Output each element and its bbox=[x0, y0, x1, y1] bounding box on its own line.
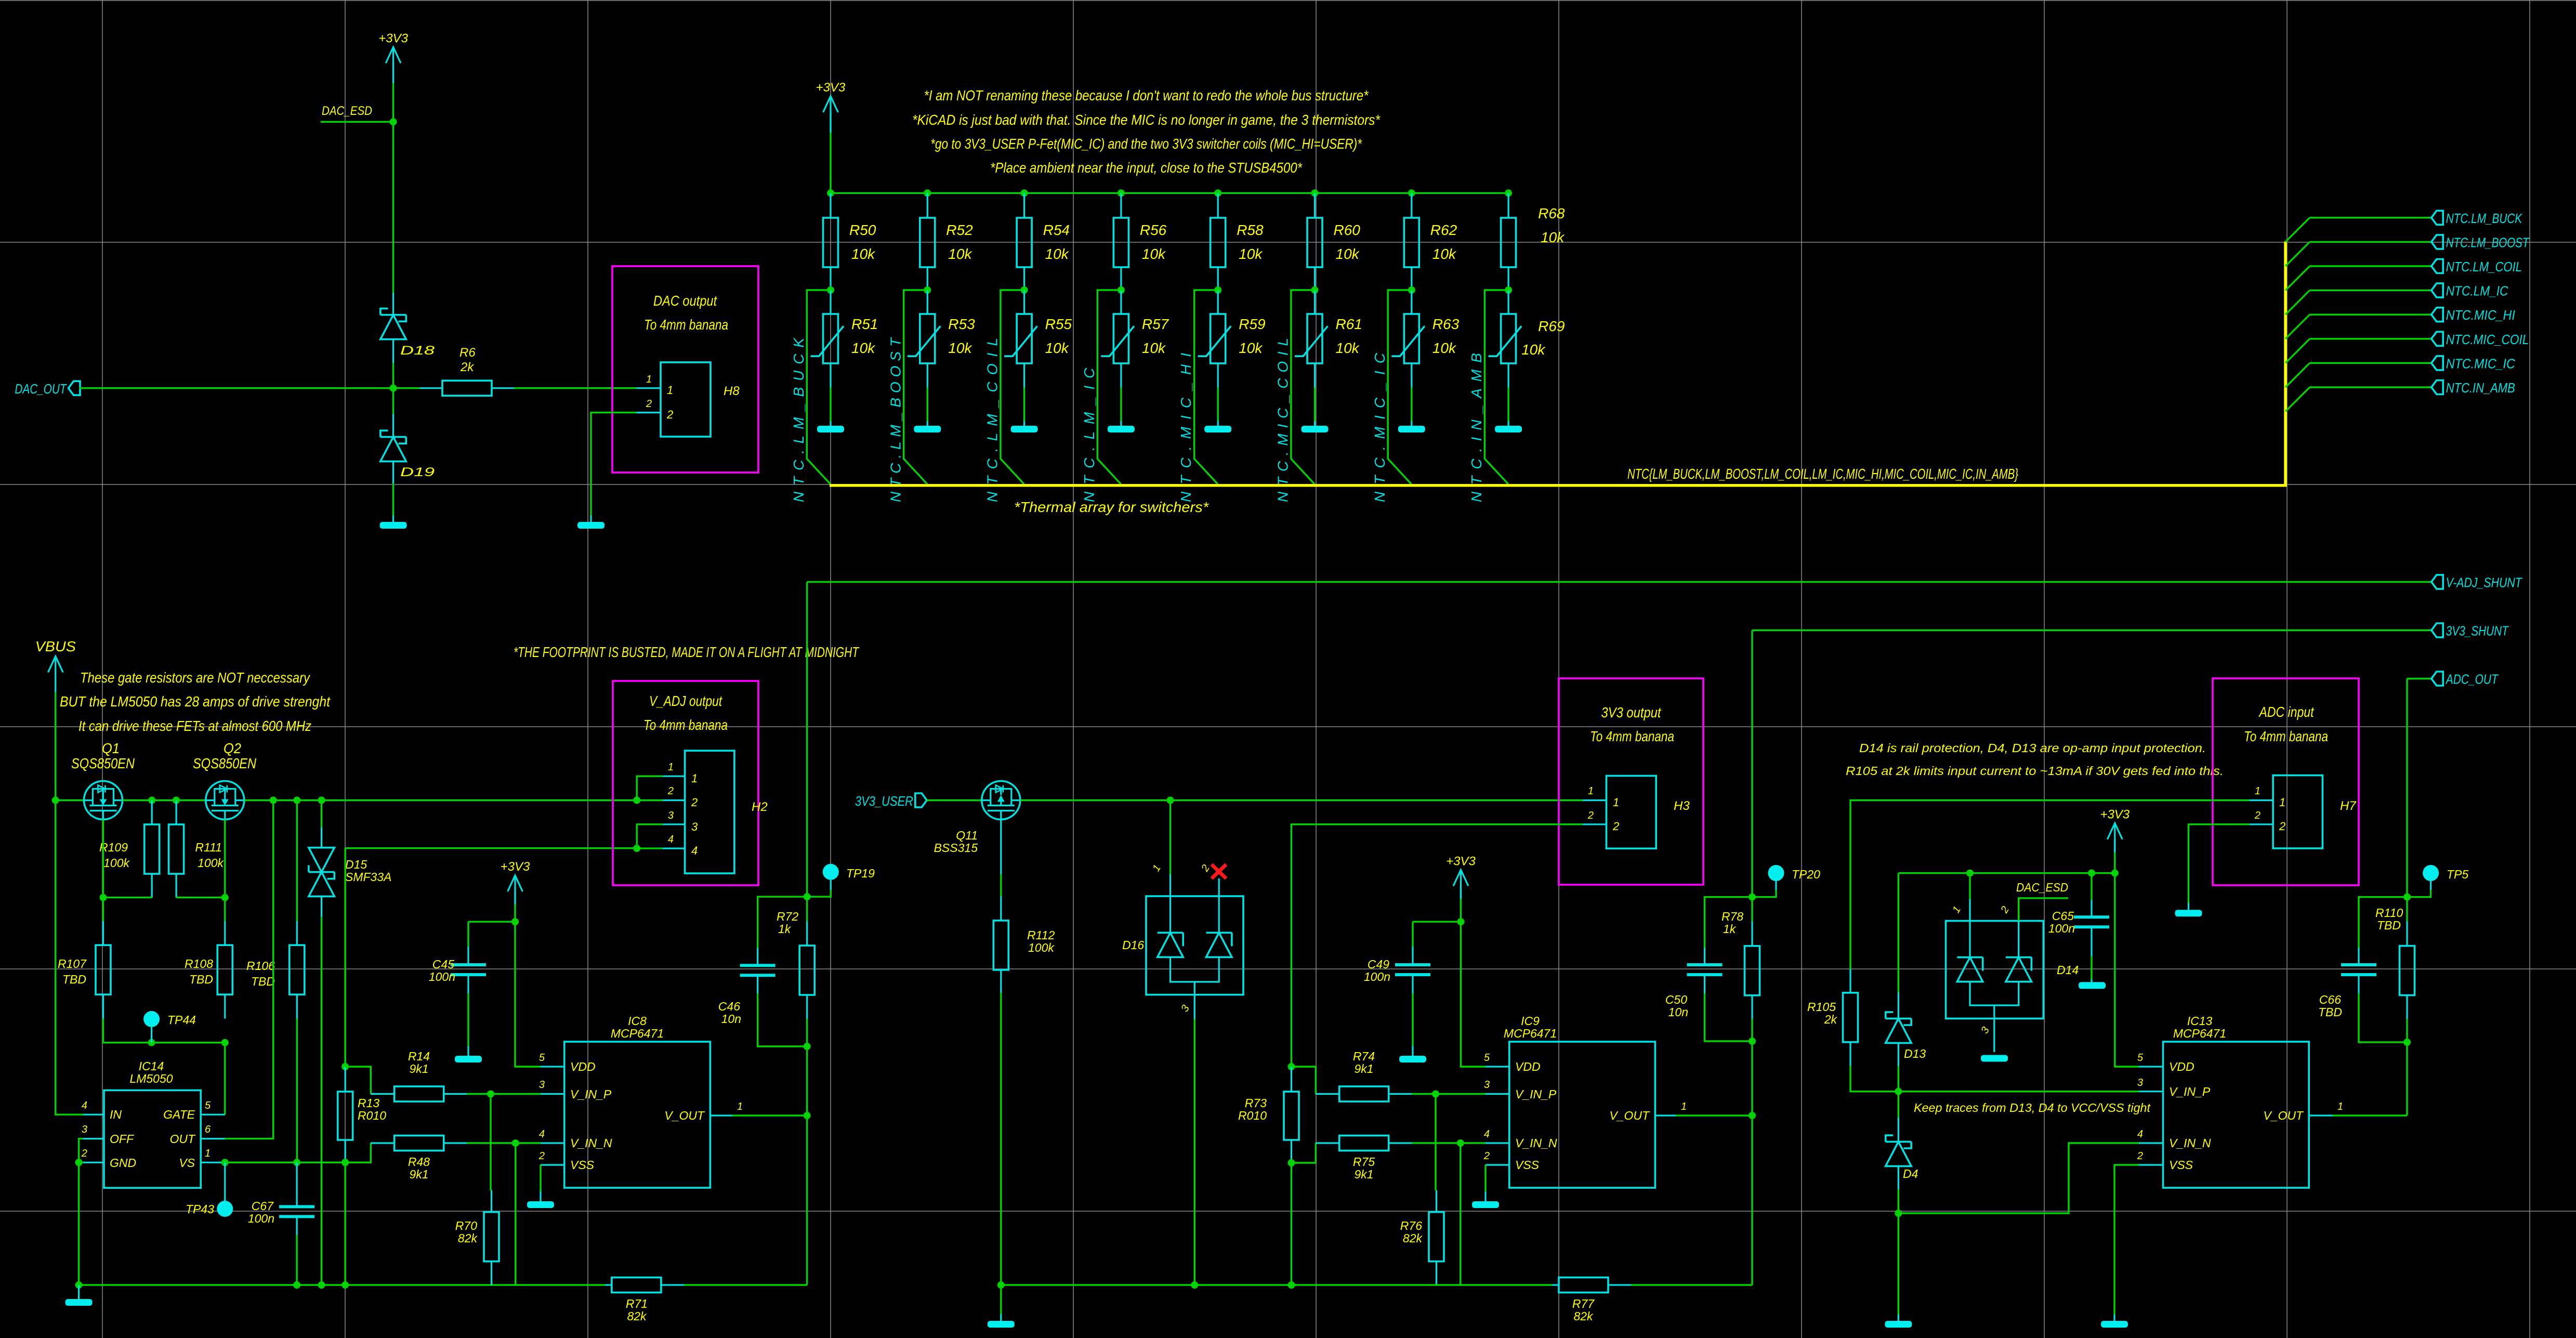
pin 3 V_IN_P bbox=[539, 1079, 612, 1101]
junction bbox=[511, 918, 519, 925]
svg-text:10k: 10k bbox=[948, 246, 972, 262]
svg-text:NTC.MIC_IC: NTC.MIC_IC bbox=[2446, 356, 2515, 371]
svg-text:R76: R76 bbox=[1400, 1219, 1422, 1232]
resistor R50 bbox=[823, 193, 876, 290]
wire bbox=[540, 1165, 541, 1191]
junction bbox=[633, 797, 640, 804]
svg-text:V-ADJ_SHUNT: V-ADJ_SHUNT bbox=[2446, 574, 2523, 590]
svg-text:VDD: VDD bbox=[2169, 1060, 2194, 1073]
pin 2 VSS bbox=[1483, 1150, 1540, 1172]
wire bbox=[296, 1235, 297, 1285]
text note bbox=[80, 670, 311, 686]
wire bbox=[123, 799, 206, 801]
svg-text:C45: C45 bbox=[432, 957, 454, 971]
svg-text:5: 5 bbox=[205, 1100, 211, 1111]
junction bbox=[293, 1159, 300, 1166]
svg-text:DAC_ESD: DAC_ESD bbox=[2016, 881, 2068, 894]
wire bbox=[1752, 629, 2432, 631]
svg-text:R78: R78 bbox=[1721, 910, 1743, 923]
svg-text:2: 2 bbox=[691, 796, 698, 809]
hierarchical label NTC.MIC_HI bbox=[2432, 307, 2515, 323]
svg-text:R50: R50 bbox=[849, 222, 876, 238]
wire bbox=[56, 801, 83, 1115]
junction bbox=[221, 1159, 229, 1166]
resistor R60 bbox=[1307, 193, 1360, 290]
wire bbox=[1898, 873, 1899, 992]
svg-text:H3: H3 bbox=[1674, 799, 1690, 813]
hierarchical label NTC.LM_BUCK bbox=[2432, 211, 2523, 226]
svg-text:To 4mm banana: To 4mm banana bbox=[1590, 728, 1674, 744]
wire bbox=[514, 387, 636, 389]
bus entry bbox=[2285, 218, 2310, 242]
resistor R48 bbox=[371, 1136, 467, 1182]
pin 2 VSS bbox=[538, 1150, 595, 1172]
wire bbox=[392, 363, 394, 388]
svg-text:NTC.MIC_COIL: NTC.MIC_COIL bbox=[2446, 332, 2529, 347]
pin 3 OFF bbox=[82, 1124, 135, 1146]
svg-text:LM5050: LM5050 bbox=[129, 1072, 173, 1085]
svg-text:DAC_ESD: DAC_ESD bbox=[322, 104, 372, 118]
svg-text:+3V3: +3V3 bbox=[816, 81, 846, 95]
wire bbox=[55, 692, 56, 801]
junction bbox=[1408, 189, 1415, 196]
svg-text:2: 2 bbox=[1612, 820, 1619, 833]
transistor Q1 bbox=[71, 740, 135, 820]
svg-text:R105: R105 bbox=[1807, 1000, 1836, 1014]
pin 3 H2 bbox=[663, 810, 698, 833]
svg-text:Q2: Q2 bbox=[224, 740, 241, 756]
svg-text:4: 4 bbox=[2137, 1129, 2143, 1140]
wire bbox=[102, 820, 104, 898]
svg-text:R55: R55 bbox=[1045, 316, 1072, 332]
erc marker bbox=[1212, 864, 1226, 878]
wire bbox=[1631, 1284, 1752, 1285]
svg-text:9k1: 9k1 bbox=[409, 1062, 428, 1075]
svg-text:D14 is rail protection, D4, D1: D14 is rail protection, D4, D13 are op-a… bbox=[1859, 741, 2206, 755]
ground bbox=[817, 421, 844, 432]
junction bbox=[75, 1281, 83, 1289]
wire bbox=[102, 898, 104, 921]
junction bbox=[512, 1139, 519, 1147]
junction bbox=[148, 797, 155, 804]
ground bbox=[455, 1056, 482, 1062]
wire bbox=[1292, 1067, 1316, 1094]
ground bbox=[2079, 982, 2106, 989]
wire bbox=[225, 801, 273, 1139]
junction bbox=[1118, 286, 1125, 294]
junction bbox=[270, 797, 277, 804]
junction bbox=[221, 894, 229, 901]
wire bbox=[1898, 872, 2114, 874]
capacitor C45 bbox=[429, 922, 515, 1056]
svg-text:SQS850EN: SQS850EN bbox=[193, 755, 257, 771]
svg-text:C66: C66 bbox=[2319, 993, 2341, 1006]
svg-text:R14: R14 bbox=[408, 1050, 430, 1063]
svg-text:C50: C50 bbox=[1665, 993, 1687, 1006]
wire bbox=[490, 1094, 491, 1191]
wire bbox=[2310, 362, 2432, 364]
junction bbox=[804, 1112, 811, 1119]
capacitor C66 bbox=[2318, 897, 2407, 1042]
svg-text:H8: H8 bbox=[724, 384, 740, 398]
ground bbox=[914, 421, 941, 432]
svg-text:Q11: Q11 bbox=[956, 829, 978, 842]
pin 2 H7 bbox=[2250, 810, 2286, 833]
wire bbox=[1485, 290, 1509, 484]
text note bbox=[1846, 764, 2224, 778]
svg-text:100n: 100n bbox=[1364, 970, 1390, 983]
svg-text:BUT the LM5050 has 28 amps of: BUT the LM5050 has 28 amps of drive stre… bbox=[60, 693, 331, 710]
svg-text:1: 1 bbox=[691, 772, 698, 785]
pin 5 VDD bbox=[1484, 1052, 1541, 1073]
thermistor R63 bbox=[1391, 290, 1459, 388]
bus entry bbox=[2285, 266, 2310, 291]
wire bbox=[1461, 899, 1486, 1067]
svg-text:R56: R56 bbox=[1140, 222, 1167, 238]
junction bbox=[997, 1281, 1005, 1289]
resistor R71 bbox=[605, 1278, 684, 1323]
junction bbox=[293, 797, 300, 804]
op-amp IC8 MCP6471 bbox=[564, 1014, 711, 1188]
svg-text:V_OUT: V_OUT bbox=[664, 1109, 705, 1122]
hierarchical label V-ADJ_SHUNT bbox=[2432, 574, 2523, 590]
svg-text:100n: 100n bbox=[248, 1212, 274, 1225]
wire bbox=[345, 1067, 371, 1094]
wire bbox=[2310, 265, 2432, 267]
wire bbox=[1411, 388, 1412, 422]
svg-text:MCP6471: MCP6471 bbox=[2173, 1027, 2226, 1040]
wire bbox=[1020, 799, 1583, 801]
pin 1 VS bbox=[179, 1148, 225, 1170]
text note bbox=[912, 112, 1381, 128]
resistor R78 bbox=[1721, 897, 1760, 1041]
net label DAC_ESD bbox=[322, 104, 372, 118]
junction bbox=[75, 1159, 83, 1166]
bus entry bbox=[2285, 339, 2310, 363]
wire bbox=[296, 1019, 298, 1163]
resistor R106 bbox=[246, 921, 305, 1019]
svg-text:1: 1 bbox=[667, 384, 673, 397]
svg-text:10k: 10k bbox=[1432, 246, 1457, 262]
bus entry bbox=[2285, 314, 2310, 339]
svg-text:10k: 10k bbox=[1521, 342, 1546, 358]
wire bbox=[1507, 388, 1509, 422]
svg-text:R52: R52 bbox=[946, 222, 973, 238]
svg-text:NTC.IN_AMB: NTC.IN_AMB bbox=[2446, 380, 2515, 396]
wire bbox=[591, 413, 636, 515]
svg-text:*KiCAD is just bad with that.: *KiCAD is just bad with that. Since the … bbox=[912, 112, 1381, 128]
connector H2 bbox=[685, 751, 768, 873]
junction bbox=[1191, 1281, 1198, 1289]
svg-text:D13: D13 bbox=[1904, 1047, 1926, 1060]
junction bbox=[1021, 189, 1028, 196]
svg-text:10k: 10k bbox=[1541, 229, 1565, 245]
svg-text:82k: 82k bbox=[458, 1231, 478, 1245]
svg-text:2: 2 bbox=[1483, 1150, 1490, 1162]
pin 2 H8 bbox=[636, 398, 673, 421]
wire bbox=[296, 801, 298, 922]
svg-text:D19: D19 bbox=[400, 465, 435, 479]
wire bbox=[79, 1162, 83, 1163]
transistor Q2 bbox=[193, 740, 257, 820]
capacitor C67 bbox=[248, 1162, 314, 1235]
svg-text:C49: C49 bbox=[1368, 957, 1389, 971]
wire bbox=[1169, 801, 1171, 875]
svg-text:2: 2 bbox=[2254, 810, 2260, 821]
thermistor R55 bbox=[1004, 290, 1072, 388]
wire bbox=[2310, 217, 2432, 218]
wire bbox=[515, 904, 541, 1067]
ground bbox=[1399, 1056, 1426, 1062]
ground bbox=[1472, 1191, 1499, 1208]
op-amp IC13 MCP6471 bbox=[2163, 1014, 2309, 1188]
svg-text:R54: R54 bbox=[1043, 222, 1070, 238]
text box 3V3 output bbox=[1559, 678, 1703, 885]
svg-text:MCP6471: MCP6471 bbox=[611, 1027, 664, 1040]
svg-text:R73: R73 bbox=[1245, 1096, 1267, 1110]
wire bbox=[927, 799, 982, 801]
svg-text:TBD: TBD bbox=[251, 975, 275, 988]
svg-text:DAC_OUT: DAC_OUT bbox=[15, 381, 68, 397]
svg-text:1: 1 bbox=[1681, 1101, 1687, 1112]
svg-text:D14: D14 bbox=[2057, 963, 2079, 977]
thermistor R51 bbox=[811, 290, 878, 388]
resistor R109 bbox=[99, 801, 160, 898]
svg-text:NTC.LM_BUCK: NTC.LM_BUCK bbox=[791, 337, 807, 502]
junction bbox=[1214, 286, 1221, 294]
svg-text:100k: 100k bbox=[1028, 941, 1055, 954]
junction bbox=[2088, 870, 2095, 877]
connector H7 bbox=[2273, 776, 2357, 849]
text box ADC input bbox=[2213, 678, 2359, 885]
svg-text:2: 2 bbox=[538, 1150, 545, 1162]
ground bbox=[527, 1191, 554, 1208]
power +3V3 bbox=[1446, 854, 1476, 906]
text note bbox=[1914, 1101, 2151, 1114]
resistor R74 bbox=[1316, 1050, 1412, 1101]
svg-text:100k: 100k bbox=[103, 856, 130, 870]
resistor R68 bbox=[1501, 193, 1566, 290]
wire bbox=[224, 898, 226, 921]
pin 1 V_OUT bbox=[2263, 1101, 2343, 1122]
wire bbox=[225, 1162, 345, 1163]
pin 6 OUT bbox=[169, 1124, 225, 1146]
pin 2 H3 bbox=[1582, 810, 1619, 833]
junction bbox=[487, 1091, 494, 1098]
svg-text:To 4mm banana: To 4mm banana bbox=[644, 317, 728, 333]
ground bbox=[2175, 903, 2202, 916]
svg-text:R60: R60 bbox=[1334, 222, 1361, 238]
svg-text:3: 3 bbox=[2137, 1077, 2143, 1088]
wire bbox=[321, 917, 322, 1285]
svg-text:GND: GND bbox=[110, 1156, 136, 1170]
svg-text:3V3_USER: 3V3_USER bbox=[855, 793, 913, 809]
pin 2 GND bbox=[81, 1148, 136, 1170]
wire bbox=[1291, 1163, 1292, 1285]
power +3V3 bbox=[501, 860, 530, 912]
junction bbox=[827, 189, 834, 196]
svg-text:4: 4 bbox=[668, 834, 674, 845]
wire bbox=[2310, 338, 2432, 339]
diode D13 bbox=[1886, 992, 1926, 1066]
wire bbox=[2019, 898, 2068, 921]
net label NTC.LM_COIL bbox=[984, 338, 1001, 502]
junction bbox=[390, 118, 397, 125]
wire bbox=[2189, 824, 2250, 903]
pin 4 V_IN_N bbox=[2137, 1129, 2211, 1150]
bus label NTC bbox=[1627, 466, 2018, 482]
junction bbox=[221, 1039, 229, 1046]
wire bbox=[1001, 1284, 1552, 1285]
ground bbox=[1885, 1314, 1912, 1328]
svg-text:10n: 10n bbox=[721, 1012, 741, 1026]
svg-text:R74: R74 bbox=[1353, 1050, 1375, 1063]
pin 5 VDD bbox=[539, 1052, 596, 1073]
wire bbox=[1850, 801, 2250, 969]
resistor R6 bbox=[420, 346, 515, 396]
hierarchical label NTC.LM_BOOST bbox=[2432, 234, 2530, 250]
junction bbox=[1167, 797, 1174, 804]
svg-text:R48: R48 bbox=[408, 1155, 430, 1169]
hierarchical label NTC.LM_COIL bbox=[2432, 259, 2522, 274]
svg-text:6: 6 bbox=[205, 1124, 211, 1135]
svg-text:VSS: VSS bbox=[2169, 1158, 2193, 1172]
svg-text:R108: R108 bbox=[185, 957, 213, 970]
svg-text:C46: C46 bbox=[718, 1000, 740, 1013]
bus entry bbox=[2285, 291, 2310, 315]
text box V_ADJ output bbox=[613, 681, 758, 885]
ground bbox=[1495, 421, 1522, 432]
svg-text:Keep traces from D13, D4 to VC: Keep traces from D13, D4 to VCC/VSS tigh… bbox=[1914, 1101, 2151, 1114]
text note bbox=[1014, 499, 1209, 515]
svg-text:9k1: 9k1 bbox=[409, 1168, 428, 1181]
svg-text:1: 1 bbox=[2337, 1101, 2343, 1112]
resistor R73 bbox=[1238, 1067, 1299, 1163]
wire bbox=[1751, 1041, 1753, 1285]
svg-text:R010: R010 bbox=[358, 1109, 386, 1122]
svg-text:R112: R112 bbox=[1027, 928, 1055, 942]
svg-text:82k: 82k bbox=[627, 1309, 647, 1323]
wire bbox=[345, 847, 637, 849]
text note bbox=[930, 136, 1362, 152]
wire bbox=[224, 820, 226, 898]
svg-text:C65: C65 bbox=[2052, 909, 2074, 923]
pin 4 V_IN_N bbox=[539, 1129, 612, 1150]
junction bbox=[293, 1281, 300, 1289]
ground bbox=[2101, 1314, 2128, 1328]
junction bbox=[1021, 286, 1028, 294]
junction bbox=[924, 189, 931, 196]
wire bbox=[1676, 1114, 1752, 1116]
wire bbox=[831, 192, 1509, 194]
wire bbox=[904, 290, 928, 484]
svg-text:2: 2 bbox=[1587, 810, 1594, 821]
svg-text:To 4mm banana: To 4mm banana bbox=[2244, 728, 2328, 744]
svg-text:R13: R13 bbox=[358, 1096, 379, 1110]
pin 1 V_OUT bbox=[664, 1101, 743, 1122]
wire bbox=[637, 824, 663, 848]
wire bbox=[830, 388, 831, 422]
resistor R75 bbox=[1316, 1136, 1412, 1182]
svg-text:*I am NOT renaming these becau: *I am NOT renaming these because I don't… bbox=[924, 87, 1369, 103]
resistor R112 bbox=[993, 820, 1055, 993]
svg-text:R61: R61 bbox=[1336, 316, 1362, 332]
svg-text:4: 4 bbox=[539, 1129, 545, 1140]
wire bbox=[1898, 1091, 2139, 1092]
net label DAC_ESD bbox=[2016, 881, 2068, 894]
resistor R105 bbox=[1807, 969, 1858, 1066]
pin 4 IN bbox=[82, 1100, 122, 1121]
wire bbox=[2310, 241, 2432, 243]
junction bbox=[341, 1063, 349, 1070]
wire bbox=[1435, 1094, 1436, 1191]
svg-text:10k: 10k bbox=[1239, 246, 1263, 262]
junction bbox=[148, 1039, 155, 1046]
wire bbox=[1314, 388, 1316, 422]
pin 5 VDD bbox=[2137, 1052, 2194, 1073]
svg-text:100k: 100k bbox=[198, 856, 224, 870]
junction bbox=[1311, 189, 1319, 196]
wire bbox=[1120, 388, 1122, 422]
capacitor C50 bbox=[1665, 897, 1752, 1041]
svg-text:VDD: VDD bbox=[570, 1060, 596, 1073]
text note bbox=[78, 718, 311, 734]
svg-text:4: 4 bbox=[82, 1100, 87, 1111]
net label NTC.LM_IC bbox=[1081, 368, 1097, 502]
wire bbox=[1291, 290, 1315, 484]
junction bbox=[1118, 189, 1125, 196]
pin 4 V_IN_N bbox=[1484, 1129, 1557, 1150]
transistor Q11 bbox=[934, 781, 1020, 855]
svg-text:R75: R75 bbox=[1353, 1155, 1375, 1169]
svg-text:3: 3 bbox=[82, 1124, 87, 1135]
resistor R108 bbox=[185, 921, 232, 1019]
wire bbox=[1751, 631, 1753, 897]
svg-text:R71: R71 bbox=[626, 1297, 648, 1310]
resistor R52 bbox=[920, 193, 973, 290]
svg-text:VSS: VSS bbox=[1515, 1158, 1540, 1172]
junction bbox=[1288, 1281, 1295, 1289]
svg-text:NTC.MIC_HI: NTC.MIC_HI bbox=[1178, 353, 1194, 502]
junction bbox=[2403, 894, 2411, 901]
svg-text:VDD: VDD bbox=[1515, 1060, 1541, 1073]
resistor R107 bbox=[58, 921, 111, 1019]
junction bbox=[2403, 1039, 2411, 1046]
svg-text:*go to 3V3_USER P-Fet(MIC_IC): *go to 3V3_USER P-Fet(MIC_IC) and the tw… bbox=[930, 136, 1362, 152]
svg-text:3: 3 bbox=[668, 810, 674, 821]
resistor R110 bbox=[2375, 897, 2415, 1042]
wire bbox=[345, 848, 346, 1067]
test point TP5 bbox=[2407, 865, 2468, 897]
junction bbox=[341, 1159, 349, 1166]
hierarchical label NTC.IN_AMB bbox=[2432, 380, 2515, 396]
wire bbox=[176, 897, 225, 898]
svg-text:NTC.MIC_IC: NTC.MIC_IC bbox=[1372, 352, 1388, 502]
svg-text:3V3_SHUNT: 3V3_SHUNT bbox=[2446, 623, 2509, 639]
test point TP20 bbox=[1752, 865, 1820, 897]
resistor R13 bbox=[338, 1067, 386, 1162]
svg-text:9k1: 9k1 bbox=[1354, 1168, 1373, 1181]
wire bbox=[79, 387, 419, 389]
svg-text:IC8: IC8 bbox=[628, 1014, 647, 1028]
thermistor R57 bbox=[1101, 290, 1169, 388]
bus entry bbox=[2285, 242, 2310, 266]
svg-text:IC13: IC13 bbox=[2187, 1014, 2213, 1028]
pin 1 V_OUT bbox=[1609, 1101, 1687, 1122]
diode D16 bbox=[1122, 863, 1243, 1019]
svg-text:10k: 10k bbox=[1142, 340, 1166, 356]
wire bbox=[1898, 1189, 1899, 1213]
